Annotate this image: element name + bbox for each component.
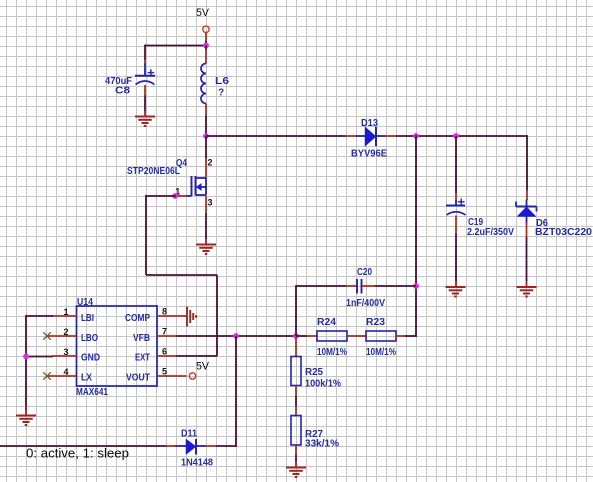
svg-text:10M/1%: 10M/1% [317,347,347,358]
wire Q4 source [205,196,207,240]
svg-text:33k/1%: 33k/1% [305,439,339,450]
node GND tee [23,354,29,360]
wire C20 right [375,285,416,287]
svg-text:10M/1%: 10M/1% [366,347,396,358]
resistor R27 [291,406,339,455]
power port 5V (top) [196,7,210,42]
pin 2 LBO [47,327,98,344]
wire LBI net [26,315,53,410]
wire C20 left [296,285,346,336]
capacitor C8 [105,60,155,97]
diode D11 [166,429,216,469]
svg-text:D11: D11 [181,429,197,440]
ground C19 [446,281,466,297]
svg-text:R25: R25 [305,367,323,378]
op-amp U14 box [76,297,157,398]
wire C8 drop [144,45,146,60]
wire D11 to VFB [216,336,236,447]
svg-text:5V: 5V [196,7,210,19]
pin 4 LX [47,367,92,383]
svg-text:2: 2 [208,158,213,168]
svg-text:?: ? [218,88,224,99]
wire VFB row [176,335,296,337]
node VFB-R25 junction [293,333,299,339]
svg-text:L6: L6 [215,76,230,87]
svg-text:100k/1%: 100k/1% [305,378,341,389]
pin 8 COMP [125,307,187,324]
svg-text:1nF/400V: 1nF/400V [346,298,385,309]
svg-text:5V: 5V [196,360,210,372]
note text [26,447,129,461]
wire top horizontal to C8 [145,45,206,47]
svg-text:C8: C8 [115,86,130,97]
ground R27 [286,461,306,477]
wire gate net [146,195,217,356]
svg-text:GND: GND [81,352,100,363]
transistor Q4 [127,158,213,208]
capacitor C19 [446,193,514,238]
svg-text:2: 2 [64,327,69,337]
svg-text:LBO: LBO [81,333,98,344]
svg-text:4: 4 [64,367,69,377]
svg-text:D13: D13 [361,118,378,129]
svg-text:R24: R24 [317,317,336,328]
svg-text:R23: R23 [366,317,385,328]
wire C19 to ground [455,234,457,282]
node VFB-D11 junction [233,333,239,339]
wire D6 drop [526,135,528,190]
resistor R24 [307,317,358,358]
pin 1 LBI [52,307,94,324]
resistor R23 [356,317,406,358]
ground C8 [135,111,155,126]
wire L6 to drain rail [205,116,207,136]
wire C8 to ground [144,96,146,112]
pin 7 VFB [133,327,176,344]
wire sleep line [0,445,166,447]
wire R25 to R27 [295,396,297,406]
svg-text:1: 1 [64,307,69,317]
wire rail D13 to corner [396,135,527,137]
ground COMP (rotated) [187,307,196,327]
no-connect LBO [43,332,51,340]
wire R27 to ground [295,455,297,462]
svg-text:C20: C20 [357,267,372,278]
capacitor C20 [346,267,385,309]
wire rail to D13 [206,135,346,137]
inductor L6 [201,46,230,117]
resistor R25 [291,337,341,396]
svg-text:BZT03C220: BZT03C220 [535,227,592,238]
node C20 tee [413,283,419,289]
wire R23 to C20 vertical [405,135,416,337]
power port 5V (VOUT) [189,360,209,379]
svg-text:VFB: VFB [133,333,150,344]
svg-text:2.2uF/350V: 2.2uF/350V [467,227,514,238]
ground LBI [16,405,36,425]
svg-text:1N4148: 1N4148 [181,457,213,468]
svg-text:EXT: EXT [135,352,150,363]
wire D6 to ground [526,237,528,281]
wire 5V stem to junction [205,41,207,46]
node gate junction [172,193,178,199]
svg-text:7: 7 [162,327,167,337]
node rail-C19 junction [453,133,459,139]
svg-text:8: 8 [162,307,167,317]
svg-text:BYV96E: BYV96E [351,148,387,159]
pin 5 VOUT [126,367,187,384]
node rail-C20 junction [413,133,419,139]
wire drain from rail [205,136,207,158]
node 5V junction [203,43,209,49]
svg-text:3: 3 [64,347,69,357]
svg-text:MAX641: MAX641 [76,387,108,398]
wire VFB to R24 [296,335,307,337]
svg-text:0: active, 1: sleep: 0: active, 1: sleep [26,447,129,461]
node drain junction [203,133,209,139]
svg-text:STP20NE06L: STP20NE06L [127,166,180,177]
no-connect LX [43,372,51,380]
wire C19 drop [455,136,457,193]
svg-text:VOUT: VOUT [126,372,150,383]
pin 3 GND [52,347,100,363]
svg-text:U14: U14 [77,297,93,308]
pin 6 EXT [135,347,176,364]
svg-text:LBI: LBI [81,313,94,324]
svg-text:5: 5 [162,367,167,377]
ground Q4 [196,239,216,254]
diode D13 [346,118,396,159]
svg-text:LX: LX [81,372,92,383]
ground D6 [517,281,537,297]
svg-text:6: 6 [162,347,167,357]
diode D6 [516,190,592,238]
svg-text:COMP: COMP [125,313,150,324]
svg-text:3: 3 [208,197,213,207]
